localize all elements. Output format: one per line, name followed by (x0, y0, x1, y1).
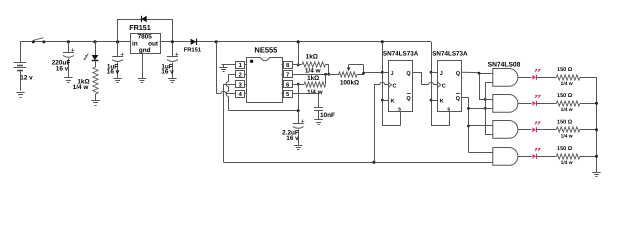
node: pin8 junction (297, 64, 300, 67)
node: rail junction 220uF (67, 40, 70, 43)
node: timing cap junction (297, 109, 300, 112)
pin 5 of NE555 (281, 91, 292, 99)
LED D6 red (532, 121, 540, 132)
svg-text:10nF: 10nF (320, 112, 335, 119)
wire: output bus to gate U5d (374, 162, 493, 164)
resistor R8 150 ohm 1/4W (556, 146, 580, 166)
svg-text:NE555: NE555 (254, 45, 277, 54)
svg-text:150 Ω: 150 Ω (557, 146, 573, 152)
svg-text:J: J (391, 71, 394, 77)
svg-text:16 v: 16 v (107, 68, 120, 75)
node: Q2bar branch g2b (467, 107, 470, 110)
wire: gate3 bottom feed (485, 134, 493, 136)
svg-text:16 v: 16 v (161, 68, 174, 75)
svg-text:FR151: FR151 (129, 23, 151, 32)
wire: Q2 to gate1 top (462, 72, 493, 73)
wire: LED D7 to resistor (536, 156, 556, 158)
potentiometer R4 100k (339, 65, 365, 87)
IC U3 SN74LS73A flip-flop 1 (383, 51, 419, 113)
battery BT1 12V (14, 42, 34, 91)
wire: 555 pin 5 to C5 (292, 94, 319, 108)
node: FF1 K (381, 99, 384, 102)
wire: Vcc rail from 7805 out to FF2 (160, 41, 432, 43)
ground: battery (16, 93, 24, 98)
wire: resistor R7 to ground rail (580, 129, 597, 131)
svg-text:16 v: 16 v (56, 66, 69, 73)
svg-text:s: s (447, 106, 450, 112)
ground: C5 (314, 120, 322, 125)
wire: LED D4 to resistor (536, 77, 556, 79)
wire: resistor R5 to ground rail (580, 77, 597, 79)
wire: gate U5c output (518, 129, 532, 131)
svg-text:150 Ω: 150 Ω (557, 119, 573, 125)
wire: 555 pin 2 loop down (226, 74, 298, 111)
pin 8 of NE555 (281, 62, 292, 70)
node: rail junction C2 / bypass (116, 40, 119, 43)
svg-text:Q: Q (406, 96, 411, 102)
node: rail junction C3 / bypass right (171, 40, 174, 43)
wire: Q2bar to gate2 bottom (469, 108, 493, 110)
ground: C2 (113, 79, 121, 83)
svg-text:1/4 w: 1/4 w (561, 133, 573, 139)
diode D3 FR151 series (184, 39, 202, 54)
svg-text:C: C (442, 83, 446, 89)
wire: 7805 gnd pin (142, 54, 144, 78)
ground: LED common (592, 173, 600, 177)
node: rail row4 (595, 155, 598, 158)
wire: LED D6 to resistor (536, 129, 556, 131)
LED D4 red (532, 69, 540, 80)
wire: FF2 K stub (431, 100, 438, 102)
resistor R6 150 ohm 1/4W (556, 93, 580, 113)
svg-text:1/4 w: 1/4 w (73, 84, 89, 91)
svg-text:SN74LS73A: SN74LS73A (383, 51, 419, 58)
svg-text:in: in (132, 40, 138, 47)
resistor R7 150 ohm 1/4W (556, 119, 580, 139)
ground: C1 (64, 78, 72, 83)
node: FF1 J (381, 71, 384, 74)
svg-text:7: 7 (286, 73, 289, 79)
node: rail row3 (595, 128, 598, 131)
ground: R1 (91, 101, 99, 106)
svg-text:1kΩ: 1kΩ (307, 75, 319, 82)
node: rail row2 (595, 102, 598, 105)
node: rail junction pin8 (297, 40, 300, 43)
node: FF2 J (430, 71, 433, 74)
AND gate U5a (493, 69, 518, 87)
wire: clock 1 from bus (374, 82, 389, 162)
node: pin6 junction (297, 83, 300, 86)
capacitor C4 2.2uF 16V (282, 111, 304, 145)
switch S1 (32, 38, 46, 44)
pin 7 of NE555 (281, 71, 292, 79)
ground: 7805 (138, 79, 146, 83)
wire: FF2 J stub (431, 72, 438, 74)
svg-text:Q: Q (456, 96, 461, 102)
pin 6 of NE555 (281, 81, 292, 89)
wire: Vcc drop to pin 8 (298, 42, 300, 65)
svg-text:1kΩ: 1kΩ (306, 54, 318, 61)
AND gate U5d (493, 148, 518, 166)
LED D5 red (532, 95, 540, 106)
wire: bypass loop over 7805 (118, 19, 173, 42)
resistor R3 1k 1/4W (304, 74, 326, 96)
wire: pot to Vcc/J1 (364, 72, 389, 74)
AND gate U5c (493, 121, 518, 139)
pin 1 of NE555 (236, 62, 247, 70)
wire: 555 pin 6 row (292, 84, 304, 86)
svg-text:SN74LS73A: SN74LS73A (432, 51, 468, 58)
wire: Q2bar to gate3 top (469, 125, 493, 127)
svg-text:1/4 w: 1/4 w (305, 67, 321, 74)
svg-text:SN74LS08: SN74LS08 (488, 61, 521, 68)
node: Q2 branch (478, 72, 481, 75)
node: rail junction LED branch (93, 40, 96, 43)
svg-text:Q: Q (406, 71, 411, 77)
svg-text:1/4 w: 1/4 w (561, 81, 573, 87)
ground: C4 (294, 146, 302, 150)
svg-text:150 Ω: 150 Ω (557, 67, 573, 73)
wire: Vcc down to 555 pin 4 (216, 42, 236, 94)
node: matrix x485 g2t (484, 98, 487, 101)
wire: resistor R6 to ground rail (580, 103, 597, 105)
svg-text:s: s (398, 106, 401, 112)
svg-text:J: J (440, 71, 443, 77)
ground: C3 (168, 79, 176, 83)
svg-text:150 Ω: 150 Ω (557, 93, 573, 99)
capacitor C2 1uF 16V (107, 42, 124, 78)
wire: gate U5b output (518, 103, 532, 105)
svg-text:1/4 w: 1/4 w (561, 107, 573, 113)
wire: 555 pin 1 to ground (222, 65, 236, 68)
wire: LED D5 to resistor (536, 103, 556, 105)
wire: matrix vertical 485 (485, 82, 493, 134)
LED D7 red (532, 148, 540, 159)
ground: 555 pin1 (219, 68, 227, 72)
wire: FF1 J stub (382, 72, 388, 74)
capacitor C5 10nF (314, 108, 335, 120)
wire: right ground rail (596, 77, 598, 172)
wire: pins 2+6 junction down (298, 84, 300, 111)
node: matrix x485 g2b (484, 107, 487, 110)
capacitor C1 220uF 16V (52, 42, 75, 78)
svg-text:2: 2 (239, 72, 242, 79)
wire: gate U5d output (518, 156, 532, 158)
node: R3 top junction (324, 73, 327, 76)
wire: Q2 branch down to gate2 top (479, 73, 493, 99)
diode D2 FR151 bypass (129, 16, 151, 32)
node: rail junction 555 Vcc (215, 40, 218, 43)
svg-text:1/4 w: 1/4 w (561, 160, 573, 166)
IC U5 SN74LS08 label (488, 61, 521, 68)
wire: 555 pin 3 output down to bus (224, 84, 375, 162)
wire: 555 pin 7 row (292, 74, 339, 76)
AND gate U5b (493, 95, 518, 113)
svg-text:FR151: FR151 (184, 48, 202, 54)
wire: resistor R8 to ground rail (580, 156, 597, 158)
node: rail junction FF1 J/K (381, 40, 384, 43)
IC U2 NE555 (247, 45, 283, 102)
wire: main Vcc rail left of 7805 (20, 41, 130, 43)
regulator U1 7805 (131, 34, 161, 54)
wire: rail end down to FF2 J/K (431, 42, 450, 126)
svg-text:K: K (440, 99, 444, 105)
svg-text:K: K (391, 99, 395, 105)
LED D1 indicator (84, 42, 99, 61)
resistor R2 1k 1/4W (292, 54, 329, 75)
pin 4 of NE555 (236, 91, 247, 99)
wire: Q2bar to gates (462, 98, 493, 153)
node: bus to FF1 clock (372, 161, 375, 164)
svg-text:12 v: 12 v (20, 75, 33, 82)
node: pin7 junction (327, 73, 330, 76)
wire: Q1 to clock 2 (413, 72, 438, 85)
svg-text:100kΩ: 100kΩ (340, 79, 359, 86)
wire: gate U5a output (518, 77, 532, 79)
svg-text:gnd: gnd (139, 47, 151, 54)
wire: FF1 J/K tie to Vcc (382, 42, 400, 126)
svg-text:Q: Q (456, 71, 461, 77)
svg-text:1/4 w: 1/4 w (307, 89, 323, 96)
wire: FF1 K stub (382, 100, 388, 102)
svg-text:16 v: 16 v (286, 135, 299, 142)
IC U4 SN74LS73A flip-flop 2 (432, 51, 468, 113)
svg-text:C: C (393, 83, 397, 89)
pin 2 of NE555 (236, 71, 247, 79)
resistor R1 1k 1/4W vertical (73, 61, 98, 101)
pin 3 of NE555 (236, 81, 247, 89)
node: Q2bar branch g3t (467, 125, 470, 128)
node: FF2 K (430, 99, 433, 102)
capacitor C3 1uF 16V (161, 42, 178, 78)
resistor R5 150 ohm 1/4W (556, 67, 580, 87)
